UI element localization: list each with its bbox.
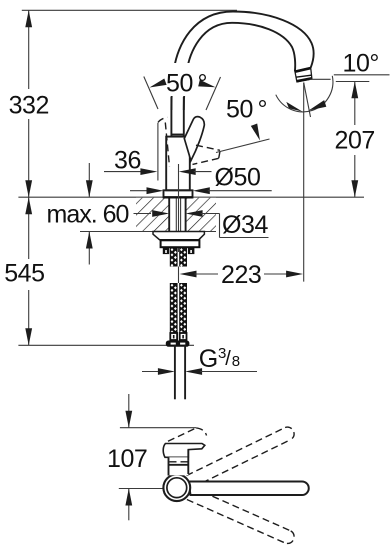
aerator at spout tip — [295, 68, 312, 82]
svg-text:Ø50: Ø50 — [215, 164, 261, 192]
wire 332 dimension line — [25, 10, 32, 197]
dashed lever down position — [193, 145, 221, 164]
wire 223 dimension leader — [180, 271, 304, 278]
node label G 3/8 — [199, 345, 240, 373]
handle plate side view — [163, 444, 205, 458]
wire hose-end reference line — [18, 344, 194, 346]
wire 545 dimension line — [25, 197, 32, 345]
handle neck — [169, 450, 189, 476]
wire Ø50 upper arrow at centerline — [179, 168, 212, 175]
svg-text:50 °: 50 ° — [226, 96, 267, 124]
node counter hatch right — [186, 198, 216, 231]
wire 207 top extension line — [310, 78, 331, 80]
dashed tube lower right — [187, 487, 294, 543]
svg-text:207: 207 — [335, 127, 375, 155]
spout arc outer curve — [171, 12, 313, 111]
centerline body — [178, 164, 180, 252]
faucet base plate — [164, 190, 193, 197]
50deg first annotation left leg — [144, 77, 158, 110]
10deg arc arrowheads — [286, 100, 326, 112]
svg-text:107: 107 — [107, 445, 147, 473]
svg-text:36: 36 — [114, 147, 141, 175]
braided hose segment 2 — [170, 283, 187, 334]
wire 36 dimension leader — [104, 168, 157, 175]
wire vertical line below spout outlet — [303, 83, 305, 282]
svg-text:545: 545 — [4, 260, 44, 288]
node label 50deg first — [166, 63, 208, 96]
spout tube solid top view — [189, 482, 309, 496]
dashed rotated handle upper — [168, 428, 207, 441]
mounting nut — [161, 240, 200, 254]
svg-text:332: 332 — [9, 92, 49, 120]
svg-text:223: 223 — [221, 261, 261, 289]
wire G38 dimension arrows — [142, 368, 257, 375]
riser pipes above body — [171, 97, 184, 137]
braided hose segment 1 — [170, 248, 187, 267]
wire hose centerline in gap — [178, 267, 180, 284]
faucet body column — [166, 137, 190, 191]
svg-text:Ø34: Ø34 — [222, 211, 268, 239]
svg-text:/: / — [225, 348, 231, 370]
lever solid — [184, 117, 204, 161]
hose end fittings — [166, 333, 190, 347]
shank through counter — [169, 198, 185, 231]
50deg second leg line — [216, 139, 270, 153]
horseshoe washer — [153, 232, 204, 240]
swivel circle inner — [167, 478, 187, 498]
50deg second arrowhead — [251, 124, 260, 141]
wire 10deg slanted leg — [304, 83, 311, 118]
svg-text:G: G — [199, 345, 218, 373]
wire Ø50 dimension line lower — [130, 187, 272, 194]
50deg first annotation right leg — [206, 77, 221, 110]
swivel circle outer — [163, 474, 190, 501]
spout arc inner curve — [184, 23, 295, 110]
wire bottom view lower reference line — [119, 488, 165, 490]
G38 connection pipes — [175, 345, 185, 400]
wire counter top plane line — [18, 196, 364, 198]
wire max60 dimension arrows — [86, 163, 93, 265]
svg-text:10°: 10° — [343, 50, 379, 78]
wire bottom view top reference line — [120, 427, 196, 429]
dashed lever up position — [158, 117, 170, 166]
node counter hatch left — [136, 198, 169, 231]
wire 36 extension line — [157, 123, 159, 181]
wire top tangent extension line — [22, 9, 237, 11]
dashed tube upper right — [187, 427, 295, 487]
svg-text:max. 60: max. 60 — [47, 201, 129, 229]
10deg angle arc — [276, 76, 333, 112]
wire 207 dimension line — [351, 82, 358, 198]
wire 107 dimension — [125, 394, 132, 520]
svg-text:50 °: 50 ° — [166, 70, 207, 98]
svg-text:8: 8 — [232, 353, 240, 370]
wire counter bottom line — [80, 231, 216, 233]
wire Ø34 dimension arrows — [134, 210, 269, 237]
wire 10deg leader line — [334, 74, 390, 76]
